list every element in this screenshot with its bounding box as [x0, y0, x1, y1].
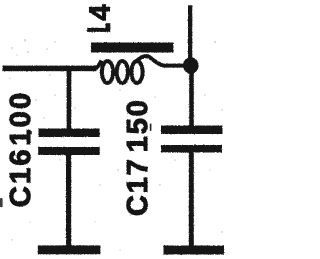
- capacitor C17: [161, 126, 223, 153]
- inductor L4: winding loops: [94, 56, 184, 83]
- wire: C17 bottom plate down to right rail: [189, 152, 194, 246]
- stray scan mark right of 150 label: [150, 124, 152, 132]
- svg-text:C17: C17: [122, 157, 154, 216]
- capacitor C16: [38, 129, 99, 156]
- inductor L4: core bar: [91, 43, 174, 53]
- wire: junction down to C17 top plate: [189, 65, 194, 126]
- wire: right vertical from top edge down to junction: [188, 5, 192, 61]
- scan speckle noise (decorative): [9, 39, 223, 251]
- stray scan mark left of C16 top plate: [30, 131, 32, 134]
- svg-text:150: 150: [122, 98, 154, 152]
- label L4: [85, 4, 117, 31]
- svg-text:C16: C16: [5, 147, 37, 207]
- ground rail segment (right): [164, 246, 225, 255]
- scan edge artifact: [0, 198, 3, 207]
- svg-text:4: 4: [85, 4, 117, 20]
- svg-text:100: 100: [5, 91, 37, 146]
- wire: C16 bottom plate down to left rail: [66, 155, 71, 246]
- ground rail segment (left): [38, 245, 101, 254]
- junction dot: node L4 / C17: [183, 57, 199, 74]
- wire: branch down from left node to C16 top plate: [67, 68, 72, 129]
- wire: left node horizontal segment to L4 left terminal: [3, 66, 97, 72]
